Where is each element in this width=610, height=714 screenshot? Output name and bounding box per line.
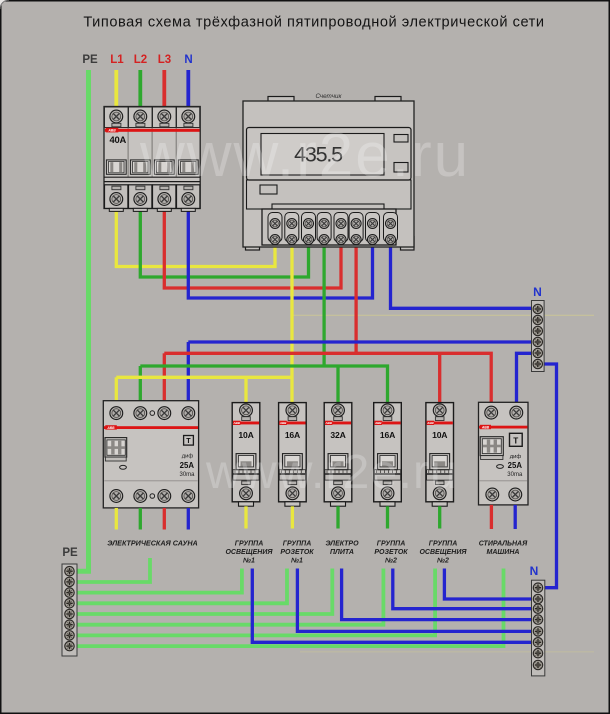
- svg-text:СТИРАЛЬНАЯ: СТИРАЛЬНАЯ: [479, 541, 528, 548]
- svg-text:25A: 25A: [180, 461, 195, 470]
- wire QD1 riser L3 red: [163, 353, 166, 401]
- svg-text:PE: PE: [82, 54, 98, 66]
- wire meter out N col8 to N bus blue: [391, 246, 535, 308]
- wire SF2 load stub yellow: [291, 506, 294, 528]
- wire SF1 load stub yellow: [244, 506, 247, 528]
- wire L1 drop to SF1 yellow: [244, 377, 247, 403]
- breaker SF5 10A: [426, 403, 454, 507]
- svg-text:диф: диф: [510, 454, 522, 460]
- wire SF4 load stub green: [386, 506, 389, 528]
- corner mark top-left: [0, 0, 9, 9]
- svg-text:Счетчик: Счетчик: [315, 93, 342, 100]
- faint artifact line lower: [300, 651, 594, 653]
- PE bus bottom left: [62, 547, 78, 656]
- wire QD1 load stub L2 green: [139, 508, 142, 530]
- svg-text:№2: №2: [436, 557, 449, 564]
- svg-text:МАШИНА: МАШИНА: [487, 549, 520, 556]
- svg-text:10A: 10A: [432, 430, 447, 440]
- RCD QD2 washing machine: [479, 402, 529, 505]
- breaker SF1 10A: [232, 403, 260, 507]
- wire meter col4 down green: [322, 246, 325, 366]
- svg-text:L2: L2: [134, 54, 147, 66]
- wire L3 input: [162, 70, 166, 108]
- wire QD1 riser L2 green: [139, 366, 142, 402]
- svg-text:30ma: 30ma: [179, 472, 195, 478]
- wire L2 drop to SF3 green: [336, 366, 339, 403]
- svg-text:ABB: ABB: [106, 426, 115, 430]
- wire PE main green: [75, 70, 89, 571]
- svg-text:40A: 40A: [110, 134, 127, 145]
- svg-text:ГРУППА: ГРУППА: [429, 541, 458, 548]
- svg-text:ОСВЕЩЕНИЯ: ОСВЕЩЕНИЯ: [419, 549, 467, 556]
- breaker SF2 16A: [279, 403, 307, 507]
- wire PE bus to SF4 load stub green: [75, 569, 384, 625]
- RCD QD1 sauna: [103, 401, 198, 508]
- svg-text:РОЗЕТОК: РОЗЕТОК: [374, 549, 408, 556]
- svg-text:32A: 32A: [330, 430, 345, 440]
- svg-text:ПЛИТА: ПЛИТА: [330, 549, 354, 556]
- svg-text:диф: диф: [182, 454, 194, 460]
- wire SF2 load N to bus blue: [297, 569, 534, 632]
- wire SF1 load N to bus blue: [252, 569, 534, 643]
- wire QD1 load stub L1 yellow: [115, 508, 118, 530]
- wire L3 branch to QD1 SF5 QD2 red: [164, 353, 491, 403]
- wire QF1 to meter L1 yellow: [116, 210, 275, 267]
- wire QF1 to meter N blue: [188, 210, 372, 298]
- wire QD2 N from bus blue: [517, 353, 535, 403]
- svg-text:ГРУППА: ГРУППА: [235, 541, 264, 548]
- N bus top right: [532, 285, 545, 372]
- wire meter col2 to SF2 yellow: [290, 246, 293, 403]
- breaker QF1 40A 4-pole: [104, 107, 200, 212]
- svg-text:www.r2e.ru: www.r2e.ru: [139, 121, 470, 190]
- svg-text:ABB: ABB: [107, 129, 116, 133]
- svg-text:16A: 16A: [285, 430, 300, 440]
- svg-text:ЭЛЕКТРО: ЭЛЕКТРО: [325, 541, 359, 548]
- wire QD1 riser L1 yellow: [115, 377, 118, 401]
- svg-text:ЭЛЕКТРИЧЕСКАЯ САУНА: ЭЛЕКТРИЧЕСКАЯ САУНА: [107, 539, 198, 548]
- wire QD1 load stub L3 red: [163, 508, 166, 530]
- svg-text:T: T: [186, 436, 191, 445]
- svg-text:N: N: [533, 285, 542, 299]
- svg-text:Типовая схема трёхфазной пятип: Типовая схема трёхфазной пятипроводной э…: [83, 14, 544, 30]
- wire QD1 riser N blue: [187, 342, 190, 402]
- wire SF5 load N to bus blue: [444, 569, 534, 600]
- wire N input: [186, 70, 190, 108]
- svg-text:№1: №1: [242, 557, 255, 564]
- svg-text:ГРУППА: ГРУППА: [283, 541, 312, 548]
- meter PV1: [243, 93, 414, 250]
- svg-text:ГРУППА: ГРУППА: [377, 541, 406, 548]
- wire SF3 load stub green: [336, 506, 339, 528]
- N bus bottom right: [530, 564, 545, 676]
- svg-text:ОСВЕЩЕНИЯ: ОСВЕЩЕНИЯ: [225, 549, 273, 556]
- wire PE bus to SF1 load stub green: [75, 569, 242, 593]
- wire L1 branch to QD1 SF1 yellow: [116, 376, 292, 379]
- wire QD1 N to bus blue: [188, 340, 534, 343]
- wire QD1 load stub N blue: [187, 508, 190, 530]
- svg-text:№1: №1: [290, 557, 303, 564]
- faint artifact line upper: [293, 314, 594, 316]
- wire QD2 load stub N blue: [514, 505, 517, 529]
- svg-text:25A: 25A: [508, 461, 523, 470]
- breaker SF3 32A: [324, 403, 352, 507]
- svg-text:L1: L1: [110, 54, 124, 66]
- breaker SF4 16A: [374, 403, 402, 507]
- wire PE bus to QD2 load stub green: [75, 569, 504, 647]
- svg-text:PE: PE: [62, 547, 78, 559]
- svg-text:L3: L3: [158, 54, 171, 66]
- wire N bus link to bottom bus blue: [542, 364, 557, 588]
- wire meter col6 down red: [354, 246, 357, 353]
- svg-text:www.r2e.ru: www.r2e.ru: [205, 446, 458, 499]
- svg-text:16A: 16A: [380, 430, 395, 440]
- wire QD2 load stub L red: [490, 505, 493, 529]
- svg-text:30ma: 30ma: [507, 472, 523, 478]
- wire QF1 to meter L2 green: [140, 210, 308, 277]
- wire L2 input: [138, 70, 142, 108]
- wire PE bus to SF3 load stub green: [75, 569, 333, 615]
- wire L3 drop to SF5 red: [438, 353, 441, 403]
- svg-text:№2: №2: [384, 557, 397, 564]
- svg-text:ABB: ABB: [481, 426, 490, 430]
- wire SF4 load N to bus blue: [393, 569, 534, 609]
- wire SF5 load stub green: [438, 506, 441, 528]
- svg-text:РОЗЕТОК: РОЗЕТОК: [280, 549, 314, 556]
- svg-text:T: T: [513, 436, 518, 445]
- load labels: [107, 539, 528, 565]
- wire PE bus to SF2 load stub green: [75, 569, 288, 604]
- wire PE bus to SF5 load stub green: [75, 569, 436, 636]
- wire L2 branch to QD1 SF3 SF4 green: [140, 366, 387, 403]
- wire QF1 to meter L3 red: [164, 210, 341, 288]
- svg-text:10A: 10A: [238, 430, 253, 440]
- wire L1 input: [114, 70, 118, 108]
- wire SF3 load N to bus blue: [342, 569, 534, 620]
- svg-text:N: N: [184, 54, 192, 66]
- svg-text:N: N: [530, 564, 539, 578]
- wire PE bus to sauna stub green: [75, 558, 151, 582]
